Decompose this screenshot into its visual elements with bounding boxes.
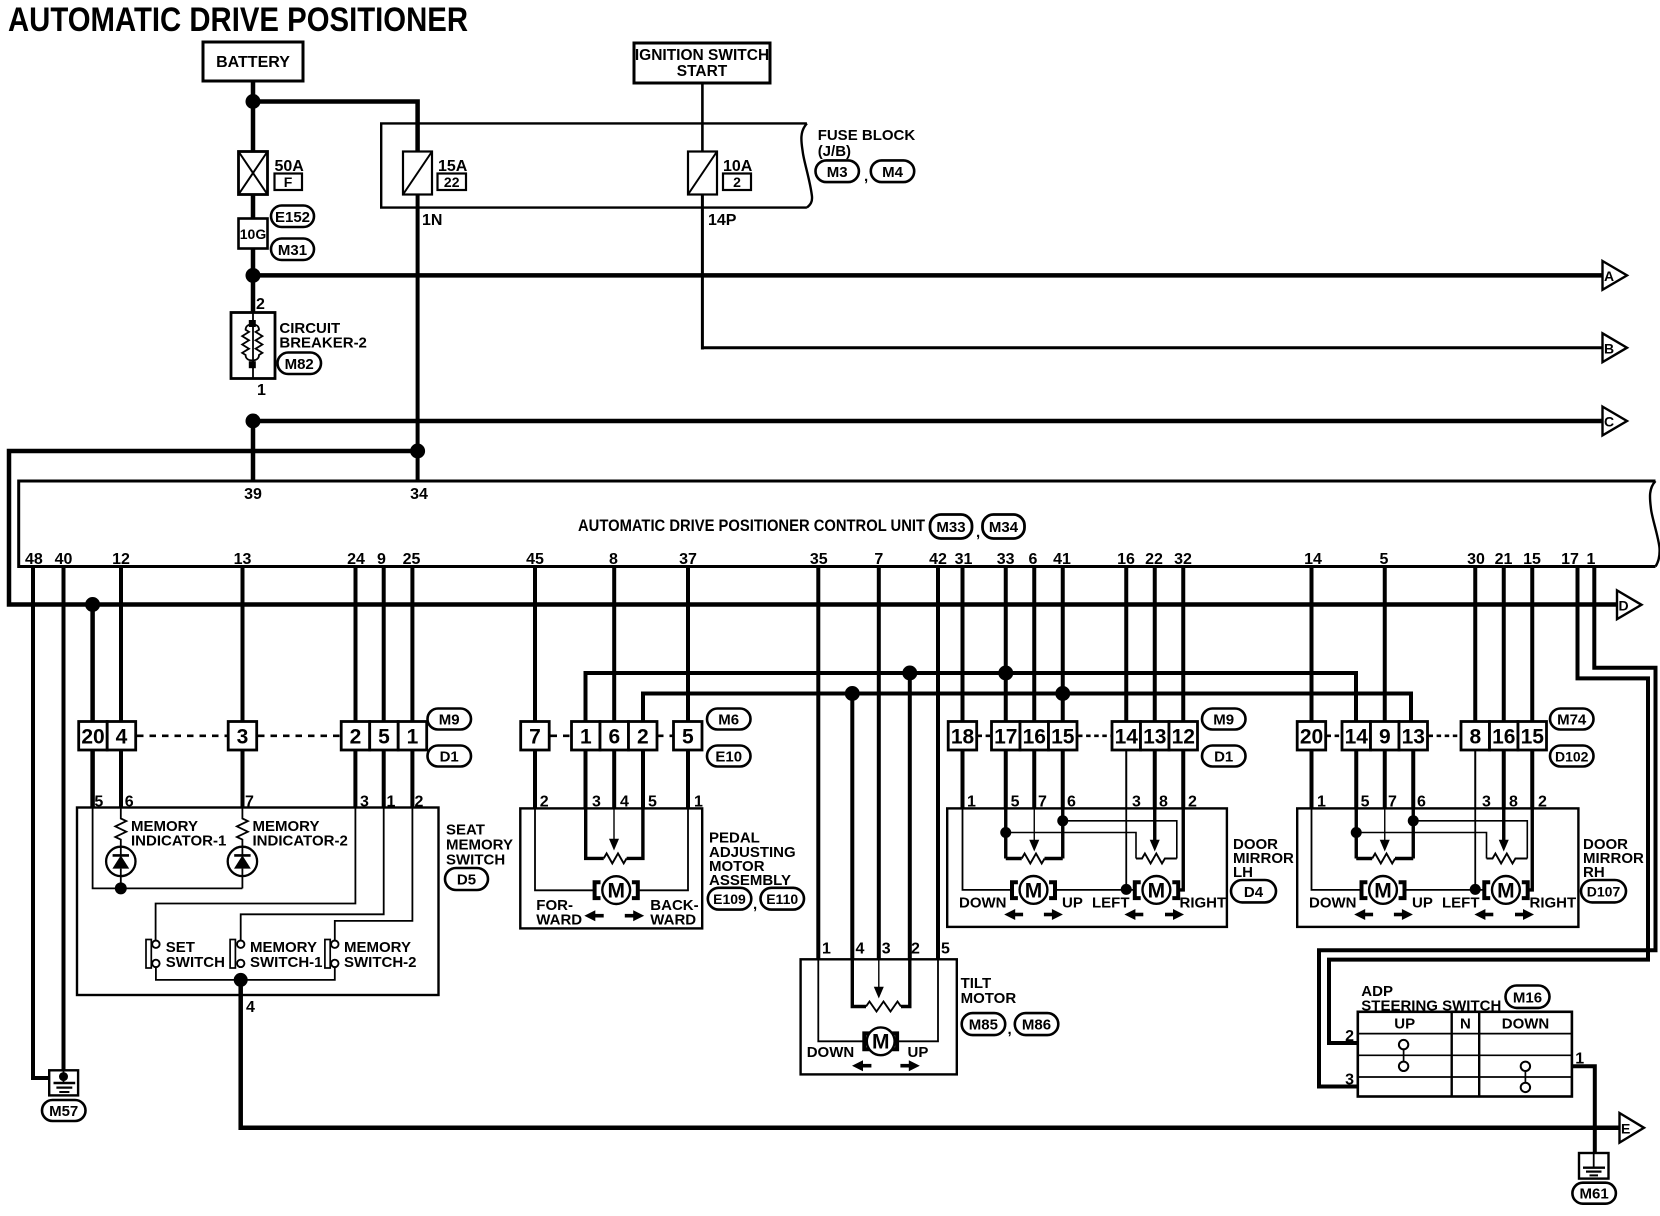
connector M4 [871, 160, 914, 182]
connector D1 [428, 746, 472, 767]
door mirror RH box [1297, 808, 1578, 927]
svg-text:33: 33 [997, 551, 1015, 568]
wire D to seat connector 20 [90, 605, 95, 724]
dashed connector link [551, 734, 572, 737]
set switch [146, 940, 160, 969]
svg-text:M57: M57 [49, 1103, 78, 1120]
svg-text:SWITCH-2: SWITCH-2 [344, 954, 417, 971]
svg-text:M9: M9 [1213, 712, 1234, 729]
door mirror RH label [1583, 836, 1644, 881]
wire LH updown resistor left [1004, 808, 1007, 858]
svg-text:16: 16 [1023, 726, 1046, 749]
connector M31 [271, 239, 314, 261]
wire LH tap to leftright resistor [1006, 833, 1136, 859]
connector M9 LH [1202, 709, 1246, 730]
connector arrow B [1603, 333, 1628, 362]
wire pin 31 to LH connector 18 [961, 567, 965, 724]
svg-text:13: 13 [1143, 726, 1166, 749]
pin box 15 [1049, 722, 1078, 751]
pedal assembly label [709, 830, 796, 890]
wire LH 12 to box [1181, 750, 1185, 809]
wire RH motor1 to motor2 [1405, 889, 1484, 891]
wire tilt 4 drop [850, 694, 854, 961]
node RH motor common [1470, 884, 1481, 895]
node D line junction [85, 597, 100, 612]
pin box 2 [341, 722, 370, 751]
svg-text:AUTOMATIC DRIVE POSITIONER: AUTOMATIC DRIVE POSITIONER [8, 1, 468, 39]
dashed connector link [137, 734, 228, 737]
fuse block (J/B) outline [381, 123, 812, 207]
wire pin 6 to LH connector 16 [1032, 567, 1036, 724]
svg-text:D: D [1619, 597, 1629, 613]
wire tilt 2 drop [908, 673, 912, 960]
RH leftright resistor [1487, 854, 1528, 864]
LH up arrow [1044, 909, 1063, 920]
svg-text:M: M [607, 880, 625, 903]
wire pin 17 to ADP switch pin 2 [1329, 567, 1648, 1044]
wire pedal 2 to assembly pin 5 [641, 750, 645, 809]
svg-text:42: 42 [929, 551, 947, 568]
svg-text:15: 15 [1051, 726, 1075, 749]
wire RH 20 to box [1310, 750, 1314, 809]
svg-text:E10: E10 [715, 749, 742, 766]
svg-text:22: 22 [1145, 551, 1163, 568]
dashed connector link [1327, 734, 1343, 737]
svg-text:D1: D1 [440, 749, 459, 766]
wire pin 4 to E line [241, 978, 1620, 1128]
connector M85 [962, 1013, 1006, 1035]
svg-text:MOTOR: MOTOR [961, 990, 1017, 1007]
forward label [536, 897, 582, 929]
LH leftright wiper [1150, 808, 1160, 851]
connector M6 [707, 709, 751, 730]
connector arrow E [1620, 1113, 1645, 1143]
svg-text:6: 6 [608, 726, 620, 749]
svg-text:M6: M6 [718, 712, 739, 729]
wire LH 13 to box [1153, 750, 1157, 809]
door mirror LH box [947, 808, 1227, 927]
svg-text:25: 25 [403, 551, 421, 568]
RH leftright wiper [1499, 808, 1509, 851]
svg-text:17: 17 [1561, 551, 1579, 568]
tilt motor box [801, 959, 957, 1074]
node tilt 4 junction [845, 686, 860, 701]
ADP up contacts [1399, 1040, 1408, 1071]
svg-text:F: F [284, 174, 293, 190]
connector M34 [983, 515, 1025, 539]
wire C line [253, 419, 1603, 424]
svg-text:M74: M74 [1557, 712, 1587, 729]
svg-text:1N: 1N [422, 212, 442, 229]
pin box 9 [1371, 722, 1400, 751]
svg-text:(J/B): (J/B) [818, 143, 851, 160]
wire RH 15 to box [1530, 750, 1534, 809]
wire RH motor1 left [1312, 808, 1362, 890]
pin box 16 [1490, 722, 1519, 751]
wire B line [702, 346, 1603, 349]
pin box 6 [600, 722, 629, 751]
pin box 2 [629, 722, 658, 751]
wire LH 14 to box [1125, 750, 1127, 809]
pin box 17 [992, 722, 1021, 751]
svg-text:5: 5 [378, 726, 390, 749]
svg-text:2: 2 [637, 726, 649, 749]
wire RH pin3 common [1474, 808, 1476, 890]
wire LH pin2 to motor2 [1178, 808, 1183, 890]
svg-text:D107: D107 [1587, 883, 1621, 899]
dashed connector link [258, 734, 341, 737]
svg-text:RH: RH [1583, 864, 1605, 881]
circuit breaker label [279, 320, 367, 352]
wire tilt motor right [897, 959, 938, 1041]
wire RH 13 to box [1411, 750, 1415, 809]
svg-text:INDICATOR-2: INDICATOR-2 [253, 833, 348, 850]
svg-text:22: 22 [444, 174, 460, 190]
connector M82 [278, 353, 322, 375]
svg-text:M: M [872, 1031, 890, 1054]
node battery junction [246, 94, 261, 109]
wire battery vertical [251, 81, 256, 313]
svg-text:2: 2 [256, 296, 265, 313]
connector D5 [445, 868, 488, 890]
pedal position resistor [586, 808, 643, 863]
wire RH updown resistor left [1355, 808, 1358, 858]
node battery junction 2 [246, 268, 261, 283]
pin box 1 [572, 722, 601, 751]
svg-text:UP: UP [1062, 895, 1083, 912]
wire pin 35 to tilt motor [816, 567, 820, 961]
wire pin 13 to connector 3 [241, 567, 245, 724]
svg-text:16: 16 [1117, 551, 1135, 568]
svg-text:17: 17 [994, 726, 1017, 749]
seat memory switch box [77, 808, 439, 996]
svg-text:M34: M34 [989, 519, 1019, 536]
svg-text:20: 20 [81, 726, 104, 749]
memory switch-2 [325, 940, 339, 969]
tilt resistor wiper [874, 959, 884, 998]
connector M74 [1550, 709, 1594, 730]
svg-text:LH: LH [1233, 864, 1253, 881]
wire LH 15 to box [1061, 750, 1065, 809]
wire RH 14 to box [1354, 750, 1358, 809]
tilt motor label [961, 975, 1017, 1007]
wire chain lower branch [643, 694, 1411, 724]
wire LH pin3 common [1125, 808, 1127, 890]
wire 14P from fuse to B line [701, 195, 704, 350]
svg-text:SWITCH: SWITCH [446, 852, 505, 869]
seat memory switch label [446, 822, 513, 869]
svg-text:6: 6 [1029, 551, 1038, 568]
svg-text:START: START [677, 63, 728, 80]
svg-text:DOWN: DOWN [807, 1044, 855, 1061]
svg-text:31: 31 [955, 551, 973, 568]
wire LH motor1 left [963, 808, 1013, 890]
wire pin 37 to pedal connector 5 [686, 567, 690, 724]
svg-text:SWITCH-1: SWITCH-1 [250, 954, 323, 971]
wire battery to pin 39 [251, 421, 256, 481]
svg-text:DOWN: DOWN [959, 895, 1007, 912]
svg-text:20: 20 [1300, 726, 1323, 749]
wire RH pin2 to motor2 [1528, 808, 1533, 890]
wire LH updown resistor right [1061, 808, 1064, 858]
svg-text:4: 4 [116, 726, 128, 749]
svg-text:,: , [976, 524, 980, 541]
svg-text:M4: M4 [882, 164, 903, 181]
svg-text:1: 1 [822, 941, 831, 958]
forward arrow [584, 910, 603, 921]
svg-text:40: 40 [55, 551, 73, 568]
dashed connector link [1078, 734, 1112, 737]
pin box 8 [1461, 722, 1490, 751]
wire switch commons [156, 967, 335, 980]
svg-text:D102: D102 [1555, 749, 1589, 765]
LH updown wiper [1029, 808, 1039, 851]
dashed connector link [978, 734, 992, 737]
node pin 41 junction [1055, 686, 1070, 701]
svg-text:2: 2 [911, 941, 920, 958]
svg-text:UP: UP [1412, 895, 1433, 912]
svg-text:E: E [1621, 1120, 1630, 1136]
wire memory switch-2 feed [335, 808, 413, 941]
pedal motor M [595, 876, 638, 904]
svg-text:13: 13 [1402, 726, 1425, 749]
svg-text:N: N [1460, 1016, 1471, 1033]
svg-text:9: 9 [377, 551, 386, 568]
wire seat 20 to switch pin 5 [90, 750, 95, 809]
wire pedal 6 to assembly pin 4 [612, 750, 616, 809]
svg-text:14: 14 [1345, 726, 1369, 749]
svg-text:15: 15 [1521, 726, 1545, 749]
fuse 15A 22 [403, 152, 468, 195]
svg-text:DOWN: DOWN [1502, 1016, 1550, 1033]
svg-text:12: 12 [112, 551, 130, 568]
wire seat 4 to switch pin 6 [119, 750, 123, 809]
wire LH 18 to box [961, 750, 965, 809]
memory indicator-2 resistor [237, 808, 248, 848]
svg-text:10G: 10G [240, 226, 267, 242]
LH left arrow [1124, 909, 1143, 920]
memory indicator-1 LED [106, 847, 135, 889]
door mirror LH label [1233, 836, 1294, 881]
wire LH 16 to box [1032, 750, 1036, 809]
svg-text:M31: M31 [278, 242, 307, 259]
svg-text:A: A [1604, 268, 1614, 284]
memory switch-1 label [250, 939, 323, 971]
svg-text:WARD: WARD [650, 912, 696, 929]
wire ADP pin 1 to ground [1572, 1066, 1595, 1154]
svg-text:5: 5 [1380, 551, 1389, 568]
wire pin 25 to connector 1 [410, 567, 414, 724]
tilt motor M [864, 1027, 897, 1055]
connector E109 [708, 888, 752, 910]
pedal adjusting motor assembly box [520, 808, 702, 928]
svg-text:3: 3 [237, 726, 249, 749]
connector D102 [1550, 746, 1594, 767]
svg-text:LEFT: LEFT [1092, 895, 1130, 912]
connector M61 [1572, 1183, 1616, 1204]
pin box 1 [398, 722, 427, 751]
backward label [650, 897, 698, 929]
wire RH updown resistor right [1412, 808, 1415, 858]
connector D4 [1231, 880, 1276, 902]
node LH motor common [1121, 884, 1132, 895]
svg-text:C: C [1604, 414, 1614, 430]
wire pin 7 to tilt motor [877, 567, 881, 961]
svg-text:2: 2 [350, 726, 362, 749]
svg-text:15: 15 [1523, 551, 1541, 568]
ADP steering switch table [1358, 1012, 1572, 1097]
wire battery to 15A fuse [253, 102, 418, 153]
svg-text:M33: M33 [936, 519, 965, 536]
svg-text:39: 39 [244, 486, 262, 503]
wire pin 12 to connector 4 [119, 567, 123, 724]
pin box 13 [1399, 722, 1428, 751]
pin box 12 [1169, 722, 1198, 751]
RH updown wiper [1380, 808, 1390, 851]
pin box 15 [1518, 722, 1547, 751]
svg-text:7: 7 [874, 551, 883, 568]
node LH pin5 tap [1000, 827, 1011, 838]
svg-text:2: 2 [733, 174, 741, 190]
ADP down contacts [1521, 1062, 1530, 1093]
svg-text:INDICATOR-1: INDICATOR-1 [131, 833, 226, 850]
wire pedal 5 to assembly pin 1 [686, 750, 690, 809]
LH motor updown M [1012, 876, 1055, 904]
tilt down arrow [852, 1060, 871, 1071]
connector arrow C [1603, 407, 1628, 436]
LH right arrow [1165, 909, 1184, 920]
ground M57 [49, 1070, 78, 1095]
svg-text:41: 41 [1053, 551, 1071, 568]
svg-text:8: 8 [1469, 726, 1481, 749]
fusible link 50A F [239, 152, 305, 195]
svg-text:ASSEMBLY: ASSEMBLY [709, 872, 791, 889]
node 1N junction [410, 444, 425, 459]
wire pedal motor right [638, 808, 688, 890]
wire pin 8 to pedal connector 6 [612, 567, 616, 724]
wire RH 9 to box [1383, 750, 1387, 809]
memory switch-2 label [344, 939, 417, 971]
svg-text:M: M [1374, 879, 1392, 902]
svg-text:8: 8 [609, 551, 618, 568]
connector arrow D [1617, 590, 1642, 619]
wire pedal 1 to assembly pin 3 [584, 750, 588, 809]
connector M86 [1015, 1013, 1059, 1035]
wire RH 16 to box [1502, 750, 1506, 809]
node RH pin6 tap [1408, 815, 1419, 826]
svg-text:,: , [753, 896, 757, 913]
ground M61 [1579, 1153, 1609, 1179]
wire pin 1 to ADP switch pin 3 [1319, 567, 1656, 1087]
svg-text:14P: 14P [708, 212, 737, 229]
svg-text:M86: M86 [1022, 1017, 1051, 1034]
svg-text:1: 1 [407, 726, 419, 749]
node switch common junction [234, 973, 248, 987]
memory indicator-1 resistor [115, 808, 126, 848]
svg-text:UP: UP [1394, 1016, 1415, 1033]
wire pedal motor left [535, 808, 594, 890]
wire RH 8 to box [1474, 750, 1476, 809]
wire LH tap to leftright resistor right [1063, 821, 1177, 859]
svg-text:LEFT: LEFT [1442, 895, 1480, 912]
pin box 5 [370, 722, 399, 751]
svg-text:E110: E110 [766, 891, 798, 907]
node indicator junction [115, 882, 127, 894]
pin box 3 [228, 722, 257, 751]
svg-text:5: 5 [941, 941, 950, 958]
svg-text:14: 14 [1304, 551, 1322, 568]
connector M3 [816, 160, 859, 182]
connector E10 [707, 746, 751, 767]
wire pin 48 to ground [33, 567, 49, 1079]
wire A line [253, 273, 1603, 278]
connector E110 [761, 888, 805, 910]
svg-text:M61: M61 [1580, 1186, 1609, 1203]
wire pin 9 to connector 5 [382, 567, 386, 724]
svg-text:30: 30 [1467, 551, 1485, 568]
connector D107 [1581, 880, 1626, 902]
wire pin 21 to RH connector 16 [1502, 567, 1506, 724]
wire pin 15 to RH connector 15 [1530, 567, 1534, 724]
svg-text:9: 9 [1379, 726, 1391, 749]
svg-text:RIGHT: RIGHT [1530, 895, 1577, 912]
wire pin 22 to LH connector 13 [1153, 567, 1157, 724]
svg-text:D4: D4 [1244, 884, 1264, 901]
dashed connector link [1429, 734, 1462, 737]
wire pin 45 to pedal connector 7 [533, 567, 537, 724]
backward arrow [625, 910, 644, 921]
svg-text:E152: E152 [275, 209, 310, 226]
svg-text:M16: M16 [1513, 989, 1542, 1006]
pin box 16 [1020, 722, 1049, 751]
dashed connector link [657, 734, 674, 737]
ADP steering switch label [1361, 983, 1501, 1015]
wire ignition to 10A fuse [701, 83, 704, 152]
svg-text:3: 3 [1345, 1072, 1354, 1089]
wire tilt motor left [818, 959, 864, 1041]
svg-text:24: 24 [347, 551, 365, 568]
svg-text:E109: E109 [713, 891, 746, 907]
battery B+ [203, 42, 303, 81]
svg-text:D1: D1 [1214, 749, 1233, 766]
connector arrow A [1603, 261, 1628, 290]
wire LH motor1 to motor2 [1056, 889, 1135, 891]
node tilt 2 junction [902, 666, 917, 681]
svg-text:M: M [1148, 879, 1166, 902]
pin box 14 [1342, 722, 1371, 751]
memory indicator-2 LED [228, 847, 257, 889]
wire pin 16 to LH connector 14 [1124, 567, 1128, 724]
svg-text:37: 37 [679, 551, 697, 568]
LH updown resistor [1006, 854, 1063, 864]
svg-text:1: 1 [1587, 551, 1596, 568]
wire seat 3 to switch pin 7 [241, 750, 245, 809]
circuit breaker-2 [231, 313, 275, 379]
svg-text:21: 21 [1495, 551, 1513, 568]
RH motor updown M [1362, 876, 1405, 904]
LH down arrow [1004, 909, 1023, 920]
svg-text:,: , [1008, 1021, 1012, 1038]
svg-text:BREAKER-2: BREAKER-2 [279, 335, 367, 352]
svg-text:35: 35 [810, 551, 828, 568]
wire memory switch-1 feed [241, 808, 384, 941]
svg-text:IGNITION SWITCH: IGNITION SWITCH [635, 47, 769, 64]
wire pin 24 to connector 2 [354, 567, 358, 724]
pin box 14 [1112, 722, 1141, 751]
svg-text:13: 13 [234, 551, 252, 568]
svg-text:5: 5 [682, 726, 694, 749]
svg-text:M82: M82 [285, 356, 314, 373]
